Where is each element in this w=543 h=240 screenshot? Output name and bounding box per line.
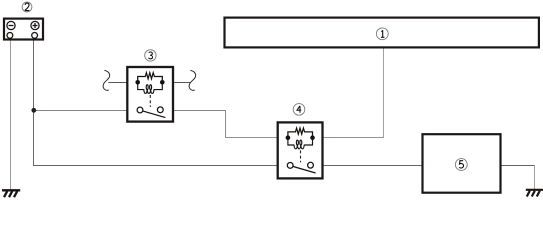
label circled 5 bbox=[455, 159, 467, 171]
relay 4 switch blade bbox=[293, 167, 315, 174]
ground (right, box 5 return) bbox=[526, 190, 543, 197]
relay 4 coil left node dot bbox=[286, 135, 291, 140]
label circled 4 bbox=[293, 104, 305, 116]
relay 3 box bbox=[127, 67, 173, 122]
relay 4 coil right node dot bbox=[310, 135, 315, 140]
battery negative terminal symbol bbox=[7, 21, 15, 29]
relay 4 box bbox=[278, 122, 323, 178]
relay 4 switch contact right bbox=[308, 162, 314, 168]
wire battery positive down to lower bus bbox=[33, 36, 35, 166]
wire relay 3 coil right stub bbox=[165, 82, 191, 84]
relay 3 coil right node dot bbox=[160, 80, 165, 85]
relay 4 coil winding bbox=[288, 140, 313, 149]
wire relay 3 switch output going right bbox=[163, 110, 226, 112]
label circled 2 bbox=[22, 2, 32, 12]
battery positive terminal post bbox=[32, 33, 38, 39]
relay 3 resistor (parallel branch) bbox=[138, 73, 163, 81]
relay 4 actuation dashed link bbox=[300, 150, 302, 162]
node junction dot on battery positive feed bbox=[31, 108, 36, 113]
wire relay 4 switch output to box 5 bbox=[313, 165, 421, 167]
wire box 5 output going right bbox=[501, 165, 536, 167]
box 1 (ECU, top right) bbox=[225, 18, 539, 48]
relay 3 switch blade bbox=[143, 111, 165, 118]
relay 4 resistor (parallel branch) bbox=[288, 128, 313, 136]
relay 4 switch contact left bbox=[287, 163, 293, 169]
wire vertical drop to relay 4 coil row bbox=[225, 110, 227, 138]
relay 3 coil winding bbox=[138, 84, 163, 93]
wire lower bus to relay 4 switch input bbox=[33, 165, 287, 167]
ground (left, battery negative) bbox=[2, 190, 20, 197]
relay 3 coil left node dot bbox=[135, 80, 140, 85]
wire break squiggle right of relay 3 coil bbox=[189, 70, 196, 90]
wire junction to relay 3 switch input bbox=[34, 110, 138, 112]
relay 3 switch contact left bbox=[137, 107, 143, 113]
relay 3 switch contact right bbox=[157, 107, 163, 113]
label circled 3 bbox=[145, 50, 156, 61]
label circled 1 bbox=[376, 28, 388, 40]
box 5 (bottom right) bbox=[423, 134, 501, 193]
wire relay 3 coil left stub bbox=[108, 82, 135, 84]
wire relay 4 coil right going right bbox=[316, 137, 384, 139]
battery negative terminal post bbox=[7, 33, 13, 39]
battery positive terminal symbol bbox=[31, 21, 39, 29]
relay 3 actuation dashed link bbox=[149, 95, 151, 107]
wire vertical rise to box 1 bbox=[383, 49, 385, 139]
wire break squiggle left of relay 3 coil bbox=[103, 70, 110, 90]
wire into relay 4 coil left bbox=[225, 137, 285, 139]
wire vertical drop to right ground bbox=[534, 165, 536, 189]
battery 2 box bbox=[4, 19, 43, 40]
wire battery negative to left ground bbox=[10, 36, 12, 190]
